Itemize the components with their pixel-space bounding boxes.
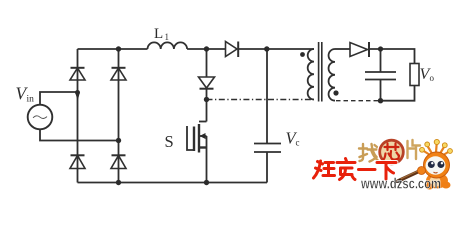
node A junction dot xyxy=(204,46,209,51)
MOSFET drain stub xyxy=(199,121,207,123)
label Vo xyxy=(420,66,435,83)
mascot leg xyxy=(442,182,451,189)
wire D1 to node B to transformer primary xyxy=(238,48,314,50)
watermark pencil xyxy=(398,169,425,182)
bridge diode top-right xyxy=(111,68,126,80)
capacitor Vc plates xyxy=(254,144,281,153)
MOSFET channel bar xyxy=(198,124,200,153)
MOSFET gate lead xyxy=(187,126,194,150)
mascot body xyxy=(426,173,448,189)
transformer secondary winding xyxy=(329,49,335,101)
wire output top rail xyxy=(369,49,415,64)
watermark char zhao (找) xyxy=(359,144,378,162)
mascot hand xyxy=(418,167,426,175)
mascot eyes xyxy=(428,161,435,168)
label Vc xyxy=(286,129,300,148)
transformer primary winding xyxy=(308,49,314,99)
svg-text:S: S xyxy=(165,132,174,151)
MOSFET source stub xyxy=(199,146,207,148)
svg-text:in: in xyxy=(27,95,35,105)
wire bottom rail xyxy=(78,182,268,184)
watermark magnifier circle xyxy=(378,139,404,165)
wire Vc bottom to rail xyxy=(266,152,268,183)
mascot crown balls xyxy=(420,139,453,153)
mascot face xyxy=(426,156,446,174)
diode D1 (horizontal, pointing right) xyxy=(226,42,238,57)
AC source sine symbol xyxy=(33,116,47,119)
mascot head xyxy=(424,152,450,178)
MOSFET gate bar xyxy=(193,127,195,152)
current arrow below Vin+ junction xyxy=(75,93,80,102)
wire top rail bridge to L1 xyxy=(78,48,148,50)
label L1 xyxy=(154,26,169,42)
junction dot Vin- on col2 xyxy=(116,138,121,143)
wire Vc branch vertical xyxy=(266,49,268,144)
watermark group xyxy=(314,139,453,193)
watermark text weiku yixia (维库一下) xyxy=(314,159,397,180)
bridge diode bottom-left xyxy=(70,156,85,169)
wire cap to resistor bottom xyxy=(381,86,415,101)
bridge column 2 xyxy=(118,49,120,183)
watermark char pian (片) xyxy=(408,140,421,159)
capacitor output leads xyxy=(380,49,382,101)
bridge column 1 xyxy=(77,49,79,183)
transformer secondary polarity dot xyxy=(333,90,338,95)
wire Vin bottom lead xyxy=(40,129,119,141)
wire node A down to diode D2 xyxy=(206,49,208,77)
junction dot output diode node xyxy=(378,46,383,51)
wire secondary bottom dashed xyxy=(336,100,381,102)
wire Vin top lead xyxy=(40,92,78,105)
watermark char xin (芯) in circle xyxy=(384,144,400,160)
mascot crown stalks xyxy=(423,144,449,156)
diode D3 output (pointing right) xyxy=(350,43,368,57)
bridge diode top-left xyxy=(70,68,85,80)
svg-text:www.dzsc.com: www.dzsc.com xyxy=(360,177,441,192)
MOSFET drain lead xyxy=(206,100,208,122)
transformer primary polarity dot xyxy=(300,52,305,57)
junction dot bottom rail col2 xyxy=(116,180,121,185)
junction dot output cap bottom xyxy=(378,98,383,103)
bridge diode bottom-right xyxy=(111,156,126,169)
svg-text:c: c xyxy=(296,138,300,148)
resistor Vo xyxy=(410,64,419,86)
node B junction dot xyxy=(264,46,269,51)
junction dot Vin+ on col1 xyxy=(75,90,80,95)
wire dash-dot primary bottom return xyxy=(207,99,315,101)
diode D2 (vertical, pointing down) xyxy=(199,77,215,88)
wire L1 to node A xyxy=(187,48,225,50)
svg-text:1: 1 xyxy=(165,32,170,42)
transformer core xyxy=(319,42,322,102)
svg-text:L: L xyxy=(154,26,163,42)
MOSFET middle stub xyxy=(199,135,207,137)
mascot mouth xyxy=(434,171,438,174)
MOSFET arrow xyxy=(200,133,206,139)
MOSFET body-source tie xyxy=(206,136,208,148)
MOSFET source lead xyxy=(206,148,208,183)
label Vin xyxy=(16,84,35,105)
capacitor output plates xyxy=(365,72,396,80)
junction dot bottom rail mosfet source xyxy=(204,180,209,185)
svg-text:o: o xyxy=(430,73,435,83)
wire secondary top to output diode xyxy=(335,48,350,50)
inductor L1 xyxy=(148,42,188,49)
wire D2 to drain node xyxy=(206,89,208,100)
drain node junction dot xyxy=(204,97,209,102)
junction dot bridge top rail col2 xyxy=(116,46,121,51)
AC source Vin circle xyxy=(28,105,53,130)
